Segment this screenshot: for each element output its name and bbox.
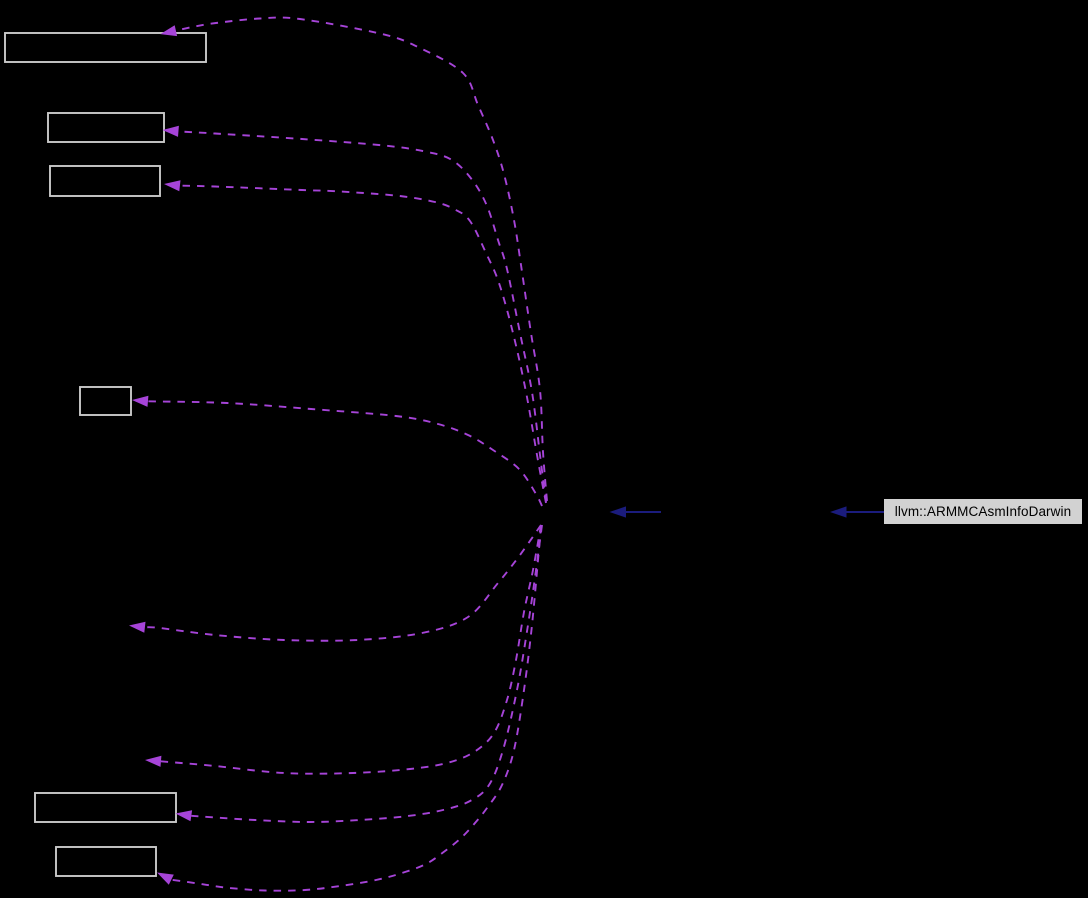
usage edge to bottom-left box	[157, 526, 541, 891]
usage edge to third left box	[164, 180, 546, 503]
node box bottom-left	[56, 847, 156, 876]
usage edge to small mid-left box	[132, 396, 542, 506]
usage edge to lower-left box	[176, 525, 543, 822]
node box second-left	[48, 113, 164, 142]
node box lower-left	[35, 793, 176, 822]
inheritance arrow: MCAsmInfoDarwin -> MCAsmInfo	[610, 506, 662, 517]
usage edge to invisible node (y~760)	[145, 525, 541, 774]
node box top-left	[5, 33, 206, 62]
usage edge to top-left box	[160, 17, 547, 501]
current node: llvm::ARMMCAsmInfoDarwin	[884, 499, 1082, 524]
usage edge to second left box	[163, 126, 547, 502]
inheritance arrow: ARMMCAsmInfoDarwin -> MCAsmInfoDarwin	[830, 506, 884, 517]
usage edge to invisible node (y~626)	[129, 525, 541, 641]
node box third-left	[50, 166, 160, 196]
node box small mid-left	[80, 387, 131, 415]
